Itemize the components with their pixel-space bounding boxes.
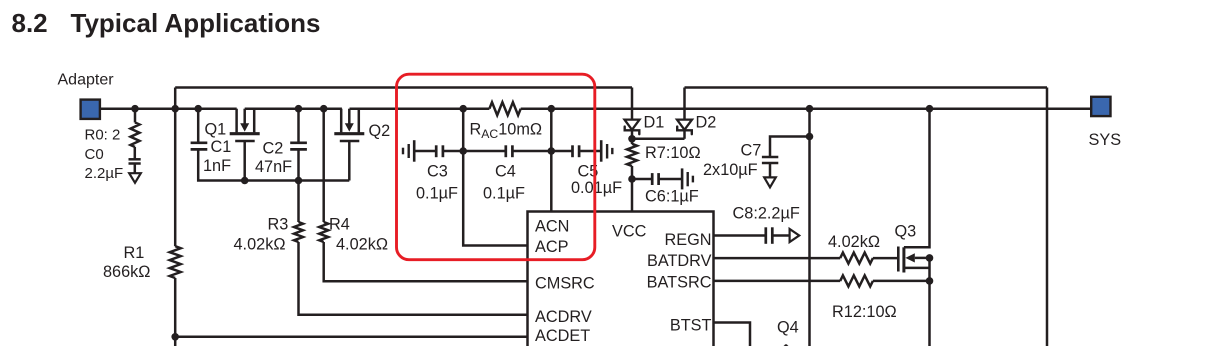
wire caps row C4-C5 [512,150,572,153]
node C2/R3 junction on bottom rail [295,177,303,185]
capacitor C1 [191,143,208,150]
node BATSRC rail junction [926,277,934,285]
label Q1 [205,120,227,138]
wire C2 upper lead [297,109,300,143]
svg-text:0.1µF: 0.1µF [416,185,458,203]
svg-text:Q1: Q1 [205,120,227,138]
wire BTST pin lead [714,323,751,346]
svg-text:4.02kΩ: 4.02kΩ [828,233,880,251]
svg-text:BATSRC: BATSRC [647,273,712,291]
wire D2 cathode lead [683,131,686,139]
label D1 [644,114,665,132]
wire caps row C3-C4 [443,150,506,153]
wire adapter rail segment D (RAC to SYS) [521,107,1090,110]
wire Q3 source rail [928,258,931,346]
svg-text:4.02kΩ: 4.02kΩ [336,235,388,253]
wire adapter rail segment B (Q1 to Q2) [245,107,342,110]
label R3 value [234,235,286,253]
label C2 [263,140,284,158]
section title [12,8,321,38]
capacitor C4 [506,145,513,157]
svg-text:R3: R3 [268,216,289,234]
stub left end of filter chain [403,140,414,162]
label C5 value [571,179,622,197]
wire REGN pin lead [714,234,765,237]
wire R7 bottom lead [631,166,634,179]
wire BATDRV resistor to Q3 gate [873,257,897,260]
pin label CMSRC [535,275,595,293]
wire R4 upper lead [322,109,325,222]
label C8 value [733,205,800,223]
wire BATSRC pin lead [714,280,841,283]
node R0 tap [131,105,139,113]
pin label ACDRV [535,308,592,326]
diode D2 (zener) [677,120,692,135]
svg-text:0.1µF: 0.1µF [483,185,525,203]
node R4 tap [320,105,328,113]
capacitor C6 [652,173,658,185]
label C7 [741,141,762,159]
label Q3 [895,222,917,240]
stub right end of filter chain [601,140,612,162]
terminal SYS (blue square) [1091,97,1110,116]
capacitor C5 [573,145,580,157]
wire D1 anode drop [631,88,634,120]
svg-text:D2: D2 [696,114,717,132]
wire C2 lower lead to R3 [297,149,300,222]
svg-text:ACN: ACN [535,218,569,236]
svg-text:ACDET: ACDET [535,327,590,345]
svg-text:C0: C0 [85,146,104,163]
label R3 [268,216,289,234]
resistor R0 [131,123,140,148]
pin label ACN [535,218,569,236]
svg-text:ACDRV: ACDRV [535,308,592,326]
svg-text:SYS: SYS [1089,131,1122,149]
resistor R1 [170,246,181,278]
label C0 value [85,165,124,182]
ground arrow C0 [129,173,141,183]
svg-text:2x10µF: 2x10µF [703,161,758,179]
svg-text:BATDRV: BATDRV [647,252,712,270]
label R1 value [103,263,150,281]
svg-text:47nF: 47nF [255,158,292,176]
node C1 tap [194,105,202,113]
resistor RAC (sense) [489,102,520,115]
label C3 [427,162,448,180]
wire top-rail/ACDET vertical at x=175 [174,88,177,247]
svg-text:866kΩ: 866kΩ [103,263,150,281]
label C3 value [416,185,458,203]
pin label ACP [535,238,568,256]
label Q4 [777,319,799,337]
svg-text:C7: C7 [741,141,762,159]
node Q1 gate on bottom rail [241,177,249,185]
wire VCC node to IC top (VCC pin) [631,179,634,212]
svg-text:C3: C3 [427,162,448,180]
svg-text:RAC10mΩ: RAC10mΩ [470,121,543,142]
label Adapter [58,72,115,89]
node Q3 body-source junction [926,254,934,262]
label R0 [85,127,121,144]
pin label BATDRV [647,252,712,270]
wire C7 lower lead [769,163,772,177]
svg-text:CMSRC: CMSRC [535,275,595,293]
node C3/C4 junction [459,147,467,155]
svg-text:0.01µF: 0.01µF [571,179,622,197]
wire R3 bottom to ACDRV [299,242,528,315]
resistor R12 [840,275,873,286]
terminal Adapter (blue square) [81,100,100,119]
resistor R7 [627,144,637,166]
svg-text:Adapter: Adapter [58,72,115,89]
wire R0 tap stub [134,109,137,123]
capacitor C2 [290,143,307,150]
label C6 value [645,187,699,205]
wire right drop at x=1047 [1046,88,1049,346]
wire RAC left node to caps row [462,109,465,151]
label R11 value [828,233,880,251]
node RAC right node [548,105,556,113]
svg-text:Q3: Q3 [895,222,917,240]
wire C6 left lead [632,178,651,181]
node C7 rail tap [806,105,814,113]
wire top rail right (D2 to right drop) [685,86,1048,89]
resistor R3 [294,222,303,242]
svg-text:R12:10Ω: R12:10Ω [832,303,897,321]
svg-text:REGN: REGN [664,231,711,249]
capacitor C0 [129,147,141,173]
arrow REGN out [790,229,800,242]
wire C6 right lead [659,178,683,181]
wire ACDET line [175,336,527,339]
svg-text:C8:2.2µF: C8:2.2µF [733,205,800,223]
stub right of C6 [682,168,693,189]
node RAC left node [459,105,467,113]
label D2 [696,114,717,132]
node ACDET junction [171,333,179,341]
node Q3 rail tap [926,105,934,113]
wire adapter rail segment A [101,107,237,110]
svg-text:C1: C1 [211,138,232,156]
ground arrow C7 [764,177,776,187]
node adapter/divider junction [171,105,179,113]
wire Q3 drain rail [904,109,930,248]
label C4 [483,162,525,202]
svg-text:2.2µF: 2.2µF [85,165,124,182]
svg-text:BTST: BTST [670,317,712,335]
svg-text:R4: R4 [329,216,350,234]
label R7 value [645,144,701,162]
node VCC node [628,175,636,183]
wire top rail left (ACDET node to D1) [175,86,632,89]
svg-text:C2: C2 [263,140,284,158]
transistor Q2 [334,109,364,181]
svg-text:D1: D1 [644,114,665,132]
label C2 value [255,158,292,176]
pin label BTST [670,317,712,335]
wire caps row C3 lead [414,150,435,153]
transistor Q1 [230,109,260,181]
label C1 value [203,157,231,175]
svg-text:Q4: Q4 [777,319,799,337]
wire R4 bottom to CMSRC [324,242,528,281]
node C2 tap [295,105,303,113]
node D1/D2 cathode junction [628,135,636,143]
svg-text:VCC: VCC [612,223,647,241]
pin label BATSRC [647,273,712,291]
label C1 [211,138,232,156]
svg-text:1nF: 1nF [203,157,231,175]
wire adapter rail segment C (Q2 to RAC) [350,107,490,110]
wire RAC right node to ACN [550,109,553,212]
wire C1 lower lead and bottom gate rail [198,149,349,180]
svg-text:R7:10Ω: R7:10Ω [645,144,701,162]
resistor R4 [319,222,328,242]
wire D2 anode drop [683,88,686,120]
capacitor C7 [762,157,778,163]
node C7 branch junction [806,133,814,141]
pin label VCC [612,223,647,241]
resistor R11 (4.02k to Q3 gate) [840,253,873,264]
label C7 value [703,161,758,179]
svg-text:R1: R1 [124,244,145,262]
diode D1 (zener) [625,120,640,135]
wire C8 to arrow [772,234,789,237]
transistor Q3 [898,247,929,273]
capacitor C8 [766,227,773,244]
label R4 [329,216,350,234]
op-amp U1 charge controller block [528,212,714,346]
wire C3/C4 junction to ACP [463,151,527,246]
wire caps row C5 to end [580,150,601,153]
label R4 value [336,235,388,253]
svg-text:ACP: ACP [535,238,568,256]
label RAC value [470,121,543,142]
label SYS [1089,131,1122,149]
node C4/C5 junction [548,147,556,155]
label Q2 [369,122,391,140]
transistor Q4 (cut off at bottom) [784,344,789,346]
wire D1 cathode lead [631,131,634,145]
wire C7 branch [770,137,810,158]
wire BATSRC resistor to rail [873,280,930,283]
svg-text:Q2: Q2 [369,122,391,140]
wire C1 upper lead [197,109,200,143]
label C5 [578,162,599,180]
wire BATDRV pin lead [714,257,841,260]
wire D1-D2 cathode link [632,138,685,141]
capacitor C3 [436,145,443,157]
wire right rail at x=809.5 [808,109,811,346]
label R12 value [832,303,897,321]
wire R1 bottom to ACDET junction [174,278,177,346]
pin label REGN [664,231,711,249]
pin label ACDET [535,327,590,345]
svg-text:C4: C4 [495,162,516,180]
label C0 [85,146,104,163]
label R1 [124,244,145,262]
annotation red highlight box [397,74,595,260]
svg-text:4.02kΩ: 4.02kΩ [234,235,286,253]
svg-text:C6:1µF: C6:1µF [645,187,699,205]
svg-text:R0: 2: R0: 2 [85,127,121,144]
